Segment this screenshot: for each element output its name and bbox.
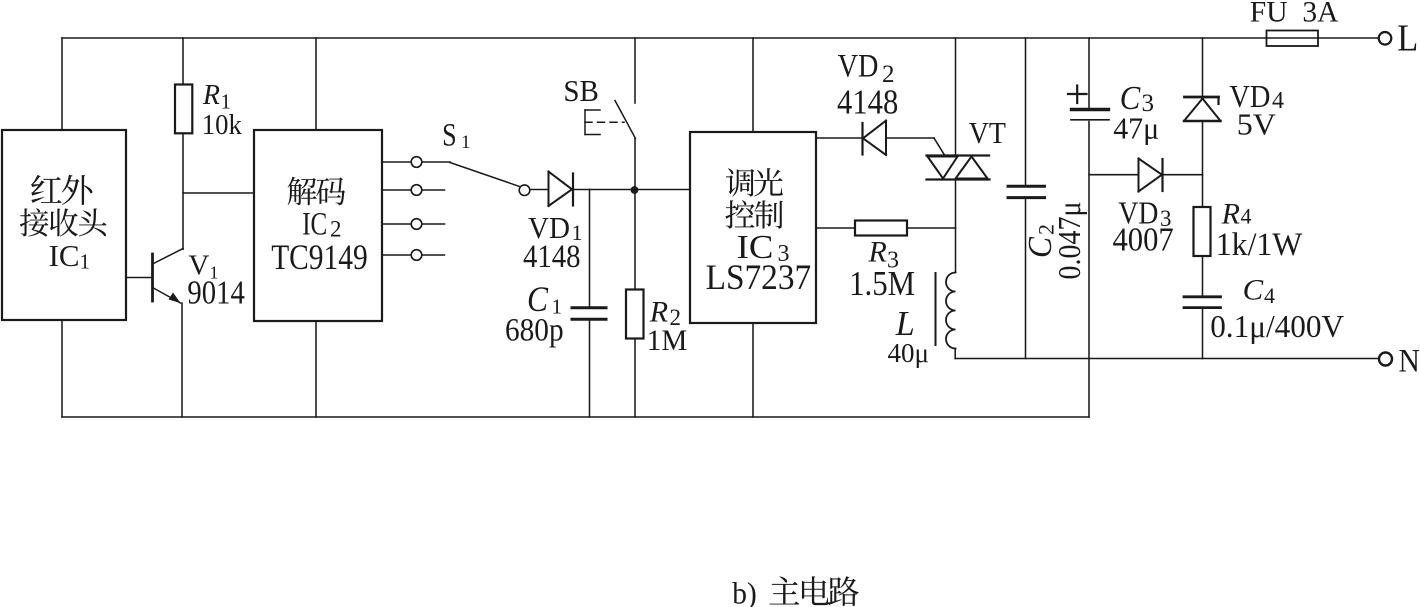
svg-text:0.1μ/400V: 0.1μ/400V bbox=[1210, 308, 1344, 344]
svg-text:1k/1W: 1k/1W bbox=[1216, 227, 1303, 263]
svg-text:N: N bbox=[1399, 344, 1420, 380]
svg-text:4: 4 bbox=[1241, 203, 1252, 228]
svg-text:LS7237: LS7237 bbox=[706, 257, 812, 297]
svg-text:4007: 4007 bbox=[1113, 221, 1174, 258]
svg-text:9014: 9014 bbox=[187, 274, 245, 311]
svg-text:1: 1 bbox=[80, 250, 91, 274]
svg-text:5V: 5V bbox=[1237, 106, 1277, 141]
svg-text:b): b) bbox=[732, 576, 757, 607]
svg-text:0.047μ: 0.047μ bbox=[1051, 202, 1087, 280]
svg-text:L: L bbox=[1397, 18, 1418, 60]
svg-text:VD: VD bbox=[838, 49, 879, 85]
svg-text:4148: 4148 bbox=[523, 239, 581, 275]
svg-text:R: R bbox=[202, 80, 220, 111]
svg-text:FU 3A: FU 3A bbox=[1250, 0, 1339, 28]
svg-text:SB: SB bbox=[563, 73, 599, 108]
svg-text:R: R bbox=[1221, 197, 1240, 230]
svg-text:S: S bbox=[442, 117, 457, 153]
svg-text:1M: 1M bbox=[647, 324, 688, 357]
svg-text:680p: 680p bbox=[505, 312, 564, 348]
svg-text:10k: 10k bbox=[202, 110, 243, 141]
svg-text:TC9149: TC9149 bbox=[271, 237, 368, 277]
svg-text:C: C bbox=[1243, 273, 1265, 306]
svg-text:4: 4 bbox=[1264, 283, 1275, 308]
svg-text:47μ: 47μ bbox=[1113, 110, 1159, 145]
svg-text:1: 1 bbox=[461, 132, 471, 153]
svg-text:IC: IC bbox=[49, 238, 80, 273]
svg-text:VT: VT bbox=[969, 115, 1006, 150]
svg-text:1.5M: 1.5M bbox=[849, 264, 915, 303]
svg-text:40μ: 40μ bbox=[888, 337, 930, 368]
svg-text:4148: 4148 bbox=[837, 83, 898, 122]
